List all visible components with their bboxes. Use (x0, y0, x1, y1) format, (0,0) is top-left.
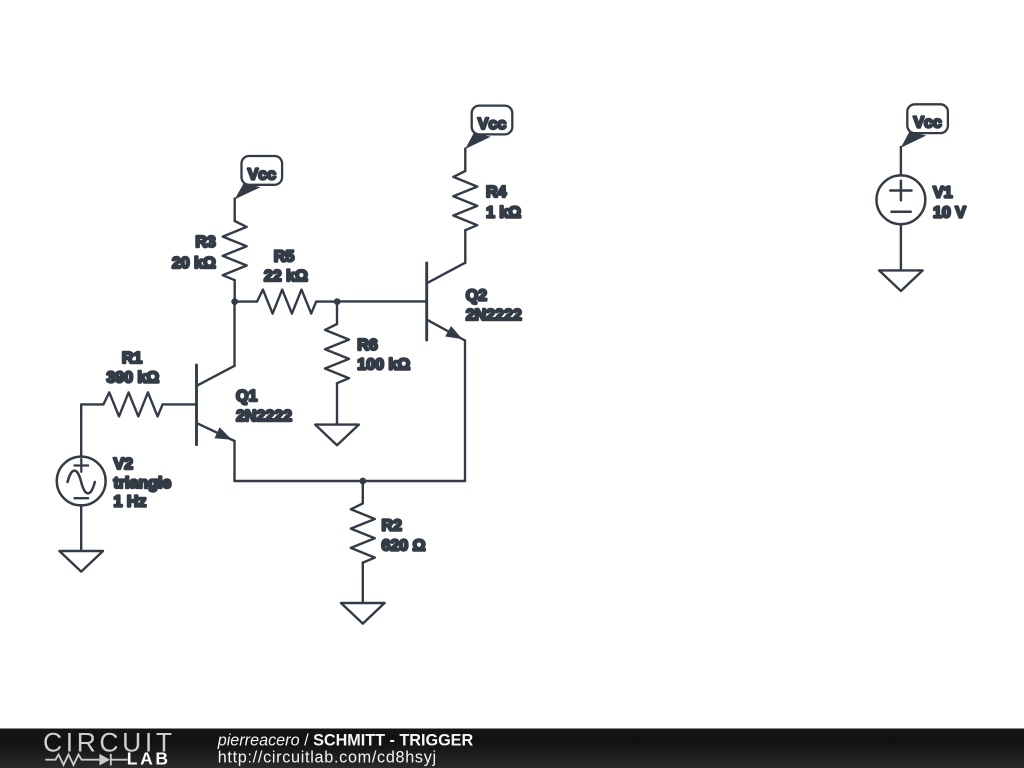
voltage source V1 10 V (877, 175, 926, 224)
svg-text:20 kΩ: 20 kΩ (172, 255, 216, 272)
voltage source V2 (triangle 1 Hz) (57, 457, 106, 506)
resistor R3 (223, 221, 247, 280)
wire R1 to Q1 base (163, 403, 197, 405)
svg-text:R1: R1 (122, 350, 143, 367)
wire node A to R5 left (235, 300, 257, 302)
resistor R6 (325, 324, 349, 383)
node C junction dot (R2 tap) (359, 478, 366, 485)
wire V1 minus to ground (900, 224, 902, 270)
footer url http://circuitlab.com/cd8hsyj (218, 749, 437, 767)
wire R4 bottom to Q2 collector (464, 230, 466, 263)
wire R3 bottom to node A (233, 280, 235, 301)
svg-text:R3: R3 (195, 234, 216, 251)
label Q2 2N2222 (466, 288, 522, 324)
label R1 390 kΩ (106, 350, 159, 386)
svg-text:Vcc: Vcc (913, 115, 942, 132)
svg-text:Vcc: Vcc (248, 166, 277, 183)
CircuitLab logo mark (resistor + diode) (45, 754, 127, 766)
svg-text:R4: R4 (486, 184, 507, 201)
label Q1 2N2222 (236, 388, 292, 425)
svg-text:Q1: Q1 (236, 388, 257, 405)
svg-text:1 Hz: 1 Hz (114, 494, 147, 511)
wire R2 bottom to ground (362, 563, 364, 603)
net Vcc flag (above R4) (465, 106, 512, 149)
label V2 triangle 1 Hz (114, 456, 172, 510)
label V1 10 V (933, 184, 966, 221)
wire Q2 emitter to bottom rail (464, 341, 466, 482)
ground (below V1) (879, 270, 923, 291)
footer bar background (0, 729, 1024, 768)
wire Vcc flag to R3 top (233, 199, 235, 222)
ground (below R6) (315, 425, 359, 446)
svg-text:620 Ω: 620 Ω (382, 537, 426, 554)
wire node C to R2 top (362, 481, 364, 503)
svg-text:10 V: 10 V (933, 204, 966, 221)
wire Q1 collector to node A (233, 302, 235, 366)
svg-text:Vcc: Vcc (478, 116, 507, 133)
svg-text:1 kΩ: 1 kΩ (486, 204, 521, 221)
svg-text:R2: R2 (382, 517, 403, 534)
wire V2 minus to ground (80, 505, 82, 551)
svg-text:390 kΩ: 390 kΩ (106, 369, 159, 386)
label R4 1 kΩ (486, 184, 521, 222)
wire R6 bottom to ground (336, 383, 338, 424)
wire node B to R6 top (336, 302, 338, 324)
footer title pierreacero / SCHMITT - TRIGGER (217, 731, 474, 749)
wire Vcc flag to R4 top (464, 149, 466, 172)
wire Q1 emitter to bottom rail (233, 441, 235, 481)
net Vcc flag (left, above R3) (235, 156, 283, 199)
svg-text:22 kΩ: 22 kΩ (264, 268, 308, 285)
label R5 22 kΩ (264, 248, 308, 285)
svg-text:triangle: triangle (114, 475, 172, 492)
svg-text:R5: R5 (274, 248, 295, 265)
svg-text:100 kΩ: 100 kΩ (357, 356, 410, 373)
CircuitLab logo wordmark CIRCUIT (43, 727, 176, 757)
svg-text:http://circuitlab.com/cd8hsyj: http://circuitlab.com/cd8hsyj (218, 749, 437, 767)
svg-text:V1: V1 (933, 184, 953, 201)
resistor R5 (257, 290, 316, 314)
resistor R4 (453, 171, 477, 230)
ground (below R2) (341, 603, 385, 624)
ground (below V2) (59, 551, 103, 572)
label R2 620 Ω (382, 517, 426, 554)
svg-text:2N2222: 2N2222 (236, 408, 292, 425)
svg-text:pierreacero / SCHMITT - TRIGGE: pierreacero / SCHMITT - TRIGGER (217, 731, 474, 749)
transistor Q1 2N2222 (197, 365, 235, 445)
CircuitLab logo wordmark LAB (127, 748, 171, 768)
resistor R2 (351, 503, 375, 562)
svg-text:R6: R6 (357, 337, 378, 354)
node B junction dot (334, 298, 341, 305)
svg-text:Q2: Q2 (466, 288, 487, 305)
label R3 20 kΩ (172, 234, 216, 272)
svg-text:2N2222: 2N2222 (466, 307, 522, 324)
svg-text:V2: V2 (114, 456, 134, 473)
wire node B to Q2 base (337, 300, 427, 302)
transistor Q2 2N2222 (427, 263, 465, 341)
label R6 100 kΩ (357, 337, 410, 373)
resistor R1 (103, 392, 162, 416)
net Vcc flag (above V1) (901, 104, 948, 147)
wire V2 plus up and right to R1 (81, 404, 103, 456)
wire R5 right to node B (316, 300, 337, 302)
wire bottom rail (Q1 emitter to Q2 emitter) (235, 480, 466, 482)
node A junction dot (231, 298, 238, 305)
wire Vcc flag to V1 plus (900, 147, 902, 175)
svg-text:LAB: LAB (127, 748, 171, 768)
